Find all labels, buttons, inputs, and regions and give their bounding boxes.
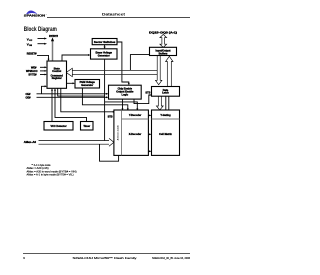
wire address bus lines <box>39 140 110 142</box>
arrowhead cell matrix 1 <box>149 133 151 135</box>
wire sector switches to erase voltage generator <box>104 45 106 48</box>
arrowhead CE# branch into SC <box>45 85 47 87</box>
wire Y-decoder to Y-gating <box>148 114 150 116</box>
arrowhead into EVG <box>88 54 91 56</box>
arrowhead VCC det up into SC <box>51 88 53 90</box>
svg-text:OE#: OE# <box>26 96 32 99</box>
box data latch <box>152 87 180 97</box>
svg-text:STB: STB <box>145 92 150 95</box>
wire I/O buffers tap to data bus <box>130 55 149 71</box>
arrowhead RY/BY# up <box>51 37 54 41</box>
svg-text:Register: Register <box>52 77 62 80</box>
data bus double line to state control <box>72 70 157 74</box>
open arrow DQ bi-directional <box>160 34 167 47</box>
wire CE/OE logic STB to data latch <box>134 95 151 104</box>
svg-text:WP#/ACC: WP#/ACC <box>26 70 38 73</box>
open arrow bus into state control <box>66 68 72 76</box>
arrowhead SS to EVG <box>104 47 106 49</box>
svg-text:RESET#: RESET# <box>27 53 37 56</box>
arrowhead Y-gating <box>149 115 151 117</box>
wire RY/BY# output <box>52 41 54 61</box>
svg-text:AMax–A0: AMax–A0 <box>24 141 37 144</box>
svg-text:AMax = A20 (x16): AMax = A20 (x16) <box>27 167 49 170</box>
wire VCC arrow <box>38 38 45 40</box>
wire X-decoder to cell matrix 2 <box>148 150 150 152</box>
wire OE# line <box>37 96 108 98</box>
arrowhead OE# <box>106 96 109 98</box>
svg-text:Buffers: Buffers <box>159 52 168 55</box>
arrowhead cell matrix 2 <box>149 150 151 152</box>
wire WE# input <box>40 66 46 68</box>
svg-text:DQ15–DQ0 (A-1): DQ15–DQ0 (A-1) <box>149 32 177 35</box>
arrowhead decoder top 3 <box>136 108 138 110</box>
arrowhead BYTE# <box>45 74 48 76</box>
wire erase voltage generator drop <box>104 59 106 140</box>
wire PGM voltage generator drop to decoder <box>82 88 127 109</box>
arrowhead WE# <box>45 66 48 68</box>
arrowhead into CE/OE top <box>128 83 130 85</box>
svg-text:™: ™ <box>46 15 48 17</box>
box sector switches <box>92 39 117 45</box>
box state control / command register U1 <box>47 61 67 88</box>
footer rule <box>23 252 190 254</box>
svg-text:Cell Matrix: Cell Matrix <box>159 133 172 136</box>
svg-text:SS: SS <box>29 45 32 47</box>
svg-text:Address Latch: Address Latch <box>117 124 120 140</box>
wire BYTE# input <box>40 74 46 76</box>
svg-text:Latch: Latch <box>162 92 169 95</box>
arrowhead WP#/ACC <box>45 70 48 72</box>
arrowhead decoder top 1 <box>122 108 124 110</box>
box address latch + Y/X decoder <box>114 110 148 155</box>
box PGM voltage generator <box>75 80 100 89</box>
svg-text:X-Decoder: X-Decoder <box>129 133 142 136</box>
arrowhead CE# <box>106 93 109 95</box>
svg-text:Y-Decoder: Y-Decoder <box>129 114 141 117</box>
arrowhead into PGM VG <box>73 82 76 84</box>
svg-text:SPANSION: SPANSION <box>24 14 45 18</box>
svg-text:AMax = A20 in word mode (BYTE#: AMax = A20 in word mode (BYTE# = VIH) <box>27 170 77 173</box>
arrowhead timer up into SC <box>54 88 56 90</box>
solid arrowheads <box>44 37 152 152</box>
wire CE# line <box>37 93 108 95</box>
box Y-gating / cell matrix <box>152 110 180 155</box>
svg-text:Datasheet: Datasheet <box>102 12 126 16</box>
wire CE/OE logic bottom drop to decoder <box>122 99 124 109</box>
arrowhead decoder top 2 <box>127 108 129 110</box>
wire CE# branch up into state control <box>42 86 46 94</box>
open arrow I/O buffers down to data latch <box>156 56 162 85</box>
wire state control drop to timer <box>55 90 87 122</box>
svg-text:AMax = A-1 in byte mode (BYTE#: AMax = A-1 in byte mode (BYTE# = VIL) <box>27 174 74 177</box>
box timer <box>81 122 94 131</box>
svg-text:S29AL016J_00_B1 June 16, 2006: S29AL016J_00_B1 June 16, 2006 <box>152 256 190 260</box>
wire EVG branch to decoder top <box>105 102 138 109</box>
Spansion logo swoosh <box>26 10 37 14</box>
svg-text:Sector Switches: Sector Switches <box>94 40 116 44</box>
open arrow address bus into address latch <box>109 138 114 146</box>
open arrows (outline) <box>66 34 173 146</box>
footnotes <box>27 164 77 177</box>
box erase voltage generator <box>91 49 118 59</box>
arrowhead STB addr latch <box>113 111 115 113</box>
box input/output buffers <box>150 47 177 55</box>
wire state control drop 4 / STB to address latch <box>61 88 114 112</box>
pin labels <box>24 32 177 144</box>
svg-text:WE#: WE# <box>31 66 37 69</box>
svg-text:VCC Detector: VCC Detector <box>50 125 66 128</box>
wire state control to PGM voltage generator <box>67 82 74 84</box>
wire WP#/ACC input <box>40 70 46 72</box>
wire X-decoder to cell matrix 1 <box>148 133 150 135</box>
svg-text:Control: Control <box>52 70 61 73</box>
open arrow data latch up to I/O buffers <box>166 56 173 86</box>
box chip enable / output enable logic <box>109 85 142 99</box>
open arrow data latch down to Y-gating <box>156 96 163 110</box>
arrowhead RESET# down <box>48 59 50 61</box>
wire X-decoder bottom loop <box>100 144 119 161</box>
wire sector switches to CE/OE logic <box>117 42 129 85</box>
header rule <box>47 17 190 19</box>
svg-text:Generator: Generator <box>98 55 110 58</box>
box VCC detector <box>44 122 73 131</box>
wire RESET# <box>37 55 49 59</box>
wire VSS arrow <box>38 43 45 45</box>
arrowhead VCC <box>44 38 47 40</box>
svg-text:Logic: Logic <box>121 93 128 96</box>
wire data latch thin lines to Y-gating <box>165 96 167 110</box>
svg-text:6: 6 <box>23 256 25 260</box>
svg-text:CC: CC <box>29 40 32 42</box>
wire state control drop 3 <box>58 88 105 96</box>
svg-text:RY/BY#: RY/BY# <box>49 35 59 38</box>
wire state control drop to VCC detector <box>51 90 53 122</box>
svg-text:BYTE#: BYTE# <box>29 74 38 77</box>
svg-text:Y-Gating: Y-Gating <box>160 114 171 117</box>
svg-text:Generator: Generator <box>81 84 93 87</box>
svg-text:STB: STB <box>108 116 113 119</box>
arrowhead VSS <box>44 43 47 45</box>
svg-text:Timer: Timer <box>83 125 90 128</box>
wire state-control top to erase voltage generator <box>62 55 89 61</box>
arrowhead STB data latch <box>150 94 152 96</box>
svg-text:S29AL016J MirrorBit™ Flash Fam: S29AL016J MirrorBit™ Flash Family <box>73 256 138 260</box>
svg-text:** A-1 in byte mode: ** A-1 in byte mode <box>32 164 52 167</box>
svg-text:Block Diagram: Block Diagram <box>24 26 57 33</box>
